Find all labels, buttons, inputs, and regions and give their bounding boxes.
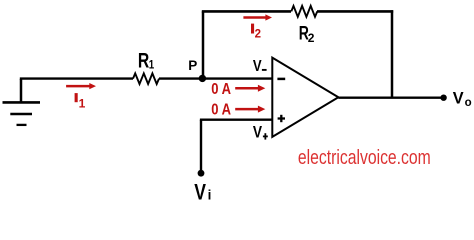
label R2: [299, 22, 315, 45]
svg-text:0 A: 0 A: [211, 81, 231, 98]
svg-text:V: V: [453, 89, 464, 107]
svg-text:0 A: 0 A: [211, 101, 231, 118]
svg-text:1: 1: [79, 96, 86, 110]
current arrow 0A into inverting input: [211, 81, 265, 98]
svg-text:electricalvoice.com: electricalvoice.com: [298, 146, 431, 168]
current arrow I2: [243, 14, 272, 40]
svg-text:1: 1: [149, 59, 154, 72]
label R1: [138, 48, 154, 72]
wire: top feedback right segment: [317, 10, 393, 13]
svg-text:2: 2: [308, 31, 315, 45]
resistor R1: [133, 73, 159, 84]
wire: R1 to op-amp inverting input: [159, 77, 272, 79]
svg-text:i: i: [208, 188, 212, 203]
svg-text:V: V: [194, 181, 206, 205]
label V+: [253, 123, 268, 142]
ground: [3, 79, 41, 125]
svg-text:V: V: [253, 123, 263, 142]
wire: non-inverting input horizontal: [200, 118, 272, 120]
wire: P up to feedback: [202, 11, 205, 78]
svg-text:V: V: [253, 58, 262, 75]
label Vi: [194, 181, 211, 205]
svg-text:o: o: [465, 97, 472, 109]
wire: feedback down to output: [391, 10, 394, 97]
node P: [199, 75, 206, 82]
current arrow I1: [66, 83, 96, 110]
wire: down to Vi terminal: [200, 120, 202, 172]
wire: output: [338, 96, 441, 98]
label V-: [253, 58, 267, 75]
terminal Vo: [440, 95, 446, 101]
label Vo: [453, 89, 472, 109]
svg-text:P: P: [188, 58, 197, 73]
wire: ground to R1: [20, 77, 133, 79]
svg-text:2: 2: [255, 29, 261, 41]
terminal Vi: [198, 170, 205, 177]
resistor R2: [291, 6, 317, 17]
wire: top feedback left segment: [202, 10, 291, 13]
current arrow 0A into non-inverting input: [211, 101, 265, 118]
op-amp U1: [272, 58, 338, 137]
